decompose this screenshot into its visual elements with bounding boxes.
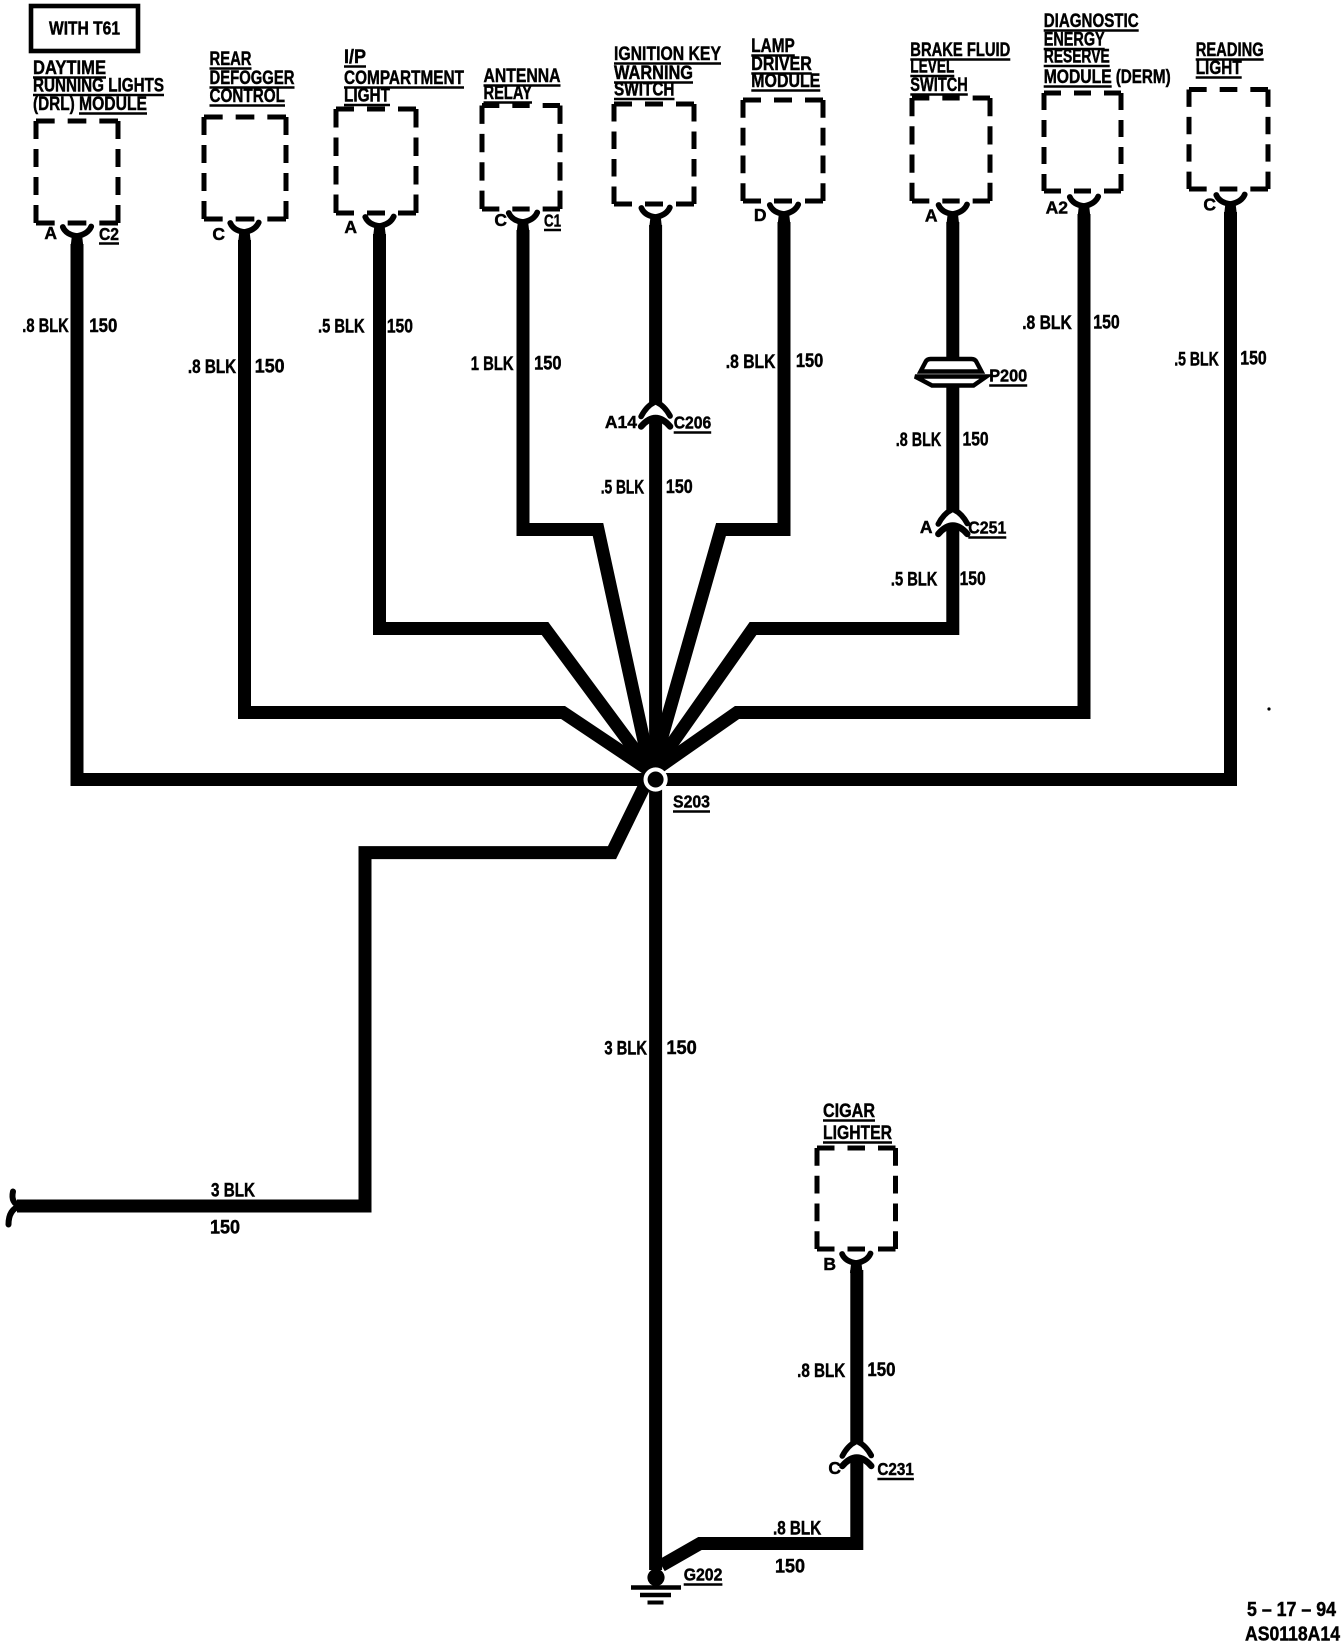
svg-text:C231: C231 bbox=[877, 1459, 914, 1479]
svg-text:C1: C1 bbox=[544, 211, 561, 231]
wire label .8 BLK 150 (brake fluid upper) bbox=[896, 430, 989, 452]
svg-text:.8 BLK: .8 BLK bbox=[797, 1361, 845, 1382]
component label DIAGNOSTIC ENERGY RESERVE MODULE (DERM) bbox=[1044, 11, 1171, 88]
svg-text:B: B bbox=[823, 1254, 836, 1274]
wire ignition key warning switch to C206 (upper segment) bbox=[649, 225, 662, 403]
wire label .5 BLK 150 (brake fluid lower) bbox=[891, 569, 986, 591]
svg-text:MODULE: MODULE bbox=[79, 94, 147, 115]
svg-text:IGNITION KEY: IGNITION KEY bbox=[614, 44, 721, 65]
svg-text:.5 BLK: .5 BLK bbox=[601, 478, 645, 499]
svg-text:150: 150 bbox=[210, 1218, 240, 1239]
connector fork at cigar lighter pin B bbox=[842, 1254, 870, 1274]
svg-text:C251: C251 bbox=[968, 518, 1006, 538]
svg-text:A: A bbox=[344, 217, 357, 237]
svg-text:.8 BLK: .8 BLK bbox=[773, 1519, 821, 1540]
wire label .5 BLK 150 (I/P light) bbox=[318, 317, 413, 338]
svg-text:150: 150 bbox=[89, 316, 117, 337]
pin A of DRL connector C2 bbox=[44, 223, 57, 243]
svg-text:150: 150 bbox=[1240, 349, 1266, 370]
pin C of reading light connector bbox=[1203, 195, 1216, 215]
connector fork at ignition key warning switch bbox=[641, 208, 669, 228]
wire label .5 BLK 150 (ignition key) bbox=[601, 477, 693, 499]
component box IGNITION KEY WARNING SWITCH (dashed) bbox=[614, 104, 694, 204]
callout box WITH T61 bbox=[31, 6, 138, 51]
inline connector C251 bbox=[938, 510, 967, 534]
svg-text:3 BLK: 3 BLK bbox=[211, 1181, 255, 1202]
wire reading light to S203 (.5 BLK 150) right horizontal run bbox=[656, 212, 1231, 780]
svg-text:5 – 17 – 94: 5 – 17 – 94 bbox=[1247, 1599, 1337, 1621]
svg-text:C: C bbox=[494, 210, 507, 230]
svg-text:A: A bbox=[925, 206, 938, 226]
component label DAYTIME RUNNING LIGHTS (DRL) MODULE bbox=[33, 58, 164, 115]
pin A2 of DERM connector bbox=[1046, 198, 1069, 218]
svg-text:.8 BLK: .8 BLK bbox=[22, 316, 69, 337]
wire label 1 BLK 150 (antenna relay) bbox=[471, 354, 562, 376]
svg-text:LIGHT: LIGHT bbox=[1196, 58, 1242, 79]
component box ANTENNA RELAY (dashed) bbox=[482, 106, 560, 210]
svg-text:150: 150 bbox=[1093, 313, 1119, 334]
grommet P200 bbox=[915, 359, 987, 386]
svg-text:LIGHT: LIGHT bbox=[344, 86, 390, 107]
svg-text:CONTROL: CONTROL bbox=[210, 86, 286, 107]
wire C206 to S203 (.5 BLK 150) bbox=[649, 419, 662, 780]
wire label 150 under bottom run bbox=[775, 1557, 805, 1578]
svg-text:C2: C2 bbox=[99, 224, 119, 244]
wire G202 lead to cigar lighter branch (.8 BLK 150 lower run) bbox=[662, 1458, 857, 1566]
svg-text:150: 150 bbox=[775, 1557, 805, 1578]
wire P200 to C251 (.8 BLK 150) bbox=[946, 385, 959, 511]
connector fork at reading light pin C bbox=[1216, 195, 1244, 215]
wire antenna relay to S203 (1 BLK 150) bbox=[523, 230, 651, 771]
pin D of lamp driver module connector bbox=[754, 205, 767, 225]
svg-text:.5 BLK: .5 BLK bbox=[318, 317, 365, 338]
svg-text:150: 150 bbox=[255, 357, 285, 378]
svg-text:150: 150 bbox=[960, 569, 986, 590]
component label IGNITION KEY WARNING SWITCH bbox=[614, 44, 721, 101]
svg-text:WITH T61: WITH T61 bbox=[49, 19, 120, 39]
connector label C1 bbox=[544, 211, 561, 231]
svg-text:.8 BLK: .8 BLK bbox=[896, 430, 942, 451]
wire DERM to S203 (.8 BLK 150) bbox=[652, 214, 1084, 772]
component box DRL MODULE (dashed) bbox=[36, 121, 118, 223]
pin A at C251 bbox=[920, 517, 933, 537]
svg-text:.8 BLK: .8 BLK bbox=[726, 352, 776, 373]
component box READING LIGHT (dashed) bbox=[1189, 90, 1268, 190]
svg-text:.8 BLK: .8 BLK bbox=[1022, 313, 1072, 334]
wire label .8 BLK 150 (DERM) bbox=[1022, 313, 1120, 335]
wire label 3 BLK 150 (main ground lead) bbox=[604, 1038, 696, 1060]
splice label S203 bbox=[673, 792, 710, 812]
wire label 150 under left harness run bbox=[210, 1218, 240, 1239]
wire C251 to S203 (.5 BLK 150) bbox=[652, 526, 953, 772]
connector fork at DRL module pin A bbox=[63, 227, 91, 247]
wire S203 to left body harness (3 BLK 150) bbox=[17, 779, 648, 1206]
connector label C206 bbox=[674, 413, 712, 433]
pin A14 at C206 bbox=[605, 412, 637, 432]
svg-text:SWITCH: SWITCH bbox=[910, 75, 968, 96]
wire label .8 BLK 150 (lamp driver) bbox=[726, 351, 824, 373]
wire rear defogger to S203 (.8 BLK 150) bbox=[245, 240, 651, 771]
svg-text:1 BLK: 1 BLK bbox=[471, 354, 514, 375]
ground G202 bbox=[631, 1569, 681, 1603]
svg-text:A14: A14 bbox=[605, 412, 637, 432]
wire label .8 BLK 150 (defogger) bbox=[188, 357, 285, 379]
svg-text:150: 150 bbox=[534, 354, 561, 375]
svg-text:150: 150 bbox=[796, 351, 823, 372]
svg-text:A: A bbox=[920, 517, 933, 537]
wire label .8 BLK 150 (DRL) bbox=[22, 316, 117, 337]
svg-text:C206: C206 bbox=[674, 413, 712, 433]
inline connector C231 bbox=[842, 1442, 871, 1466]
svg-text:150: 150 bbox=[963, 430, 989, 451]
svg-text:.8 BLK: .8 BLK bbox=[188, 357, 237, 378]
component box DERM (dashed) bbox=[1044, 93, 1121, 191]
svg-text:LIGHTER: LIGHTER bbox=[823, 1123, 892, 1144]
component label CIGAR LIGHTER bbox=[823, 1101, 892, 1144]
wire brake fluid level switch to P200 (upper segment) bbox=[946, 222, 959, 360]
svg-text:REAR: REAR bbox=[210, 49, 252, 70]
connector label C2 bbox=[99, 224, 119, 244]
wire I/P compartment light to S203 (.5 BLK 150) bbox=[380, 234, 651, 771]
component box REAR DEFOGGER CONTROL (dashed) bbox=[204, 117, 286, 219]
component box I/P COMPARTMENT LIGHT (dashed) bbox=[336, 109, 416, 213]
svg-text:150: 150 bbox=[867, 1360, 895, 1381]
svg-text:.5 BLK: .5 BLK bbox=[1174, 350, 1219, 371]
date stamp 5-17-94 bbox=[1247, 1599, 1337, 1621]
svg-text:RELAY: RELAY bbox=[484, 83, 533, 104]
component box BRAKE FLUID LEVEL SWITCH (dashed) bbox=[912, 98, 990, 201]
component label LAMP DRIVER MODULE bbox=[751, 36, 820, 92]
svg-text:C: C bbox=[828, 1458, 841, 1478]
svg-text:A2: A2 bbox=[1046, 198, 1069, 218]
wire label 3 BLK over left harness run bbox=[211, 1181, 255, 1202]
svg-text:.5 BLK: .5 BLK bbox=[891, 570, 938, 591]
pin B of cigar lighter connector bbox=[823, 1254, 836, 1274]
splice S203 bbox=[644, 767, 668, 791]
pin C of rear defogger connector bbox=[212, 224, 225, 244]
connector fork at rear defogger pin C bbox=[230, 223, 258, 243]
component label REAR DEFOGGER CONTROL bbox=[210, 49, 295, 107]
svg-text:MODULE: MODULE bbox=[751, 71, 820, 92]
component label ANTENNA RELAY bbox=[484, 66, 561, 104]
svg-text:3 BLK: 3 BLK bbox=[604, 1039, 647, 1060]
wire label .8 BLK over bottom run bbox=[773, 1519, 821, 1540]
svg-text:(DRL): (DRL) bbox=[33, 94, 79, 115]
connector fork at antenna relay pin C bbox=[509, 213, 537, 233]
inline connector C206 bbox=[641, 403, 670, 427]
svg-text:150: 150 bbox=[666, 477, 693, 498]
svg-text:D: D bbox=[754, 205, 767, 225]
component box CIGAR LIGHTER (dashed) bbox=[817, 1148, 896, 1249]
svg-text:A: A bbox=[44, 223, 57, 243]
svg-text:S203: S203 bbox=[673, 792, 710, 812]
harness end fork (wire continues) bbox=[9, 1192, 21, 1225]
component label READING LIGHT bbox=[1196, 40, 1264, 79]
component box LAMP DRIVER MODULE (dashed) bbox=[743, 100, 823, 201]
wire lamp driver module to S203 (.8 BLK 150) bbox=[652, 222, 784, 772]
pin C at C231 bbox=[828, 1458, 841, 1478]
connector label P200 bbox=[989, 366, 1027, 386]
svg-text:CIGAR: CIGAR bbox=[823, 1101, 875, 1122]
svg-text:RESERVE: RESERVE bbox=[1044, 47, 1110, 68]
svg-text:I/P: I/P bbox=[344, 47, 366, 68]
connector fork at DERM pin A2 bbox=[1070, 197, 1098, 217]
svg-text:MODULE: MODULE bbox=[1044, 67, 1112, 88]
connector label C231 bbox=[877, 1459, 914, 1479]
svg-text:AS0118A14: AS0118A14 bbox=[1245, 1624, 1341, 1646]
connector fork at I/P compartment light pin A bbox=[365, 217, 393, 237]
stray scan dot bbox=[1267, 707, 1270, 710]
component label I/P COMPARTMENT LIGHT bbox=[344, 47, 464, 107]
connector fork at brake fluid level switch pin A bbox=[939, 205, 967, 225]
svg-text:150: 150 bbox=[666, 1038, 696, 1059]
svg-text:C: C bbox=[212, 224, 225, 244]
svg-text:SWITCH: SWITCH bbox=[614, 80, 675, 101]
pin A of brake fluid level switch connector bbox=[925, 206, 938, 226]
wire S203 to G202 (3 BLK 150) bbox=[649, 780, 662, 1571]
pin C of antenna relay connector C1 bbox=[494, 210, 507, 230]
svg-text:150: 150 bbox=[387, 317, 413, 338]
connector label C251 bbox=[968, 518, 1006, 538]
wire label .5 BLK 150 (reading light) bbox=[1174, 349, 1267, 371]
drawing number AS0118A14 bbox=[1245, 1624, 1341, 1646]
wire DRL module to S203 (.8 BLK 150) with main horizontal run bbox=[77, 244, 656, 780]
svg-text:P200: P200 bbox=[989, 366, 1027, 386]
ground label G202 bbox=[684, 1565, 723, 1585]
connector fork at lamp driver module pin D bbox=[770, 205, 798, 225]
pin A of I/P compartment light connector bbox=[344, 217, 357, 237]
svg-text:(DERM): (DERM) bbox=[1116, 67, 1171, 88]
svg-text:G202: G202 bbox=[684, 1565, 723, 1585]
wire C231 to cigar lighter (.8 BLK 150) bbox=[850, 1270, 863, 1443]
component label BRAKE FLUID LEVEL SWITCH bbox=[910, 40, 1010, 96]
wire label .8 BLK 150 (cigar lighter) bbox=[797, 1360, 895, 1382]
